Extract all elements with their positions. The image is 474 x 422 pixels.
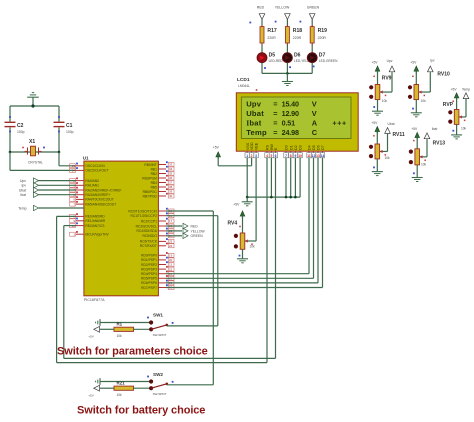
svg-text:OSC2/CLKOUT: OSC2/CLKOUT: [85, 169, 108, 173]
svg-text:RD5/PSP5: RD5/PSP5: [141, 277, 157, 281]
svg-text:19: 19: [169, 254, 173, 258]
svg-text:R17: R17: [267, 28, 277, 34]
svg-text:A: A: [312, 118, 318, 127]
svg-text:RC1/T1OSI/CCP2: RC1/T1OSI/CCP2: [131, 214, 158, 218]
svg-text:=: =: [273, 118, 277, 127]
svg-text:RV9: RV9: [382, 76, 392, 82]
svg-text:C1: C1: [66, 123, 73, 129]
svg-text:35: 35: [169, 172, 173, 176]
svg-text:Ibat: Ibat: [20, 193, 26, 197]
svg-text:Temp: Temp: [18, 206, 26, 210]
svg-text:Ubat: Ubat: [388, 122, 395, 126]
svg-text:RC4/SDI/SDA: RC4/SDI/SDA: [136, 229, 157, 233]
svg-text:RC3/SCK/SCL: RC3/SCK/SCL: [136, 224, 158, 228]
svg-text:D6: D6: [317, 145, 321, 150]
svg-text:RB7/PGD: RB7/PGD: [143, 194, 158, 198]
svg-text:C: C: [312, 128, 318, 137]
svg-text:RA0/AN0: RA0/AN0: [85, 179, 99, 183]
svg-text:220R: 220R: [318, 36, 327, 40]
svg-text:10k: 10k: [250, 245, 256, 249]
svg-text:SW2: SW2: [153, 372, 163, 377]
svg-text:36: 36: [169, 176, 173, 180]
svg-text:22: 22: [169, 267, 173, 271]
svg-text:LM044L: LM044L: [238, 84, 250, 88]
svg-text:RB2: RB2: [151, 172, 158, 176]
svg-text:U1: U1: [83, 155, 89, 160]
svg-text:100p: 100p: [66, 130, 74, 134]
svg-text:+5V: +5V: [233, 203, 240, 207]
svg-text:VDD: VDD: [250, 142, 254, 150]
svg-text:GREEN: GREEN: [307, 6, 320, 10]
svg-text:Temp: Temp: [462, 88, 470, 92]
svg-text:GREEN: GREEN: [191, 234, 204, 238]
svg-text:RVP: RVP: [443, 102, 454, 108]
svg-text:+5V: +5V: [88, 393, 93, 397]
svg-text:17: 17: [169, 219, 173, 223]
svg-text:SW-SPDT: SW-SPDT: [153, 392, 167, 396]
svg-text:25: 25: [169, 240, 173, 244]
svg-text:R21: R21: [117, 381, 126, 386]
svg-text:D7: D7: [321, 145, 325, 150]
svg-text:RV13: RV13: [433, 141, 446, 147]
svg-text:SW1: SW1: [153, 313, 163, 318]
svg-text:VSS: VSS: [246, 142, 250, 150]
svg-text:RB1: RB1: [151, 167, 158, 171]
svg-text:R19: R19: [318, 28, 328, 34]
svg-text:PIC16F877A: PIC16F877A: [84, 298, 105, 302]
svg-text:=: =: [273, 99, 277, 108]
svg-text:RED: RED: [257, 6, 265, 10]
svg-text:10k: 10k: [117, 393, 123, 397]
svg-text:R1: R1: [117, 322, 123, 327]
svg-text:14: 14: [72, 169, 76, 173]
svg-text:10k: 10k: [385, 156, 391, 160]
svg-text:220R: 220R: [267, 36, 276, 40]
svg-text:LCD1: LCD1: [237, 77, 250, 83]
svg-text:RA5/AN4/SS/C2OUT: RA5/AN4/SS/C2OUT: [85, 202, 116, 206]
svg-text:RD7/PSP7: RD7/PSP7: [141, 286, 157, 290]
svg-text:10k: 10k: [421, 163, 427, 167]
svg-text:D1: D1: [289, 145, 293, 150]
svg-text:20: 20: [169, 258, 173, 262]
svg-text:LED-RED: LED-RED: [269, 59, 284, 63]
svg-text:26: 26: [169, 244, 173, 248]
svg-text:Upv: Upv: [20, 179, 26, 183]
svg-text:RA1/AN1: RA1/AN1: [85, 184, 99, 188]
svg-text:10k: 10k: [421, 99, 427, 103]
svg-text:C2: C2: [17, 123, 24, 129]
svg-text:Upv: Upv: [246, 99, 262, 108]
svg-text:D3: D3: [299, 145, 303, 150]
svg-text:Ibat: Ibat: [432, 127, 438, 131]
svg-text:MCLR/Vpp/THV: MCLR/Vpp/THV: [85, 233, 109, 237]
svg-text:D7: D7: [319, 52, 326, 58]
svg-text:D2: D2: [294, 145, 298, 150]
svg-text:RB3/PGM: RB3/PGM: [142, 176, 157, 180]
svg-text:100p: 100p: [17, 130, 25, 134]
svg-text:RD4/PSP4: RD4/PSP4: [141, 272, 157, 276]
svg-text:Ipv: Ipv: [21, 184, 26, 188]
svg-text:+5V: +5V: [410, 61, 417, 65]
svg-text:RV11: RV11: [393, 132, 405, 138]
svg-text:D0: D0: [285, 145, 289, 150]
svg-text:D4: D4: [308, 145, 312, 150]
svg-text:40: 40: [169, 194, 173, 198]
svg-text:RD3/PSP3: RD3/PSP3: [141, 267, 157, 271]
svg-text:24.98: 24.98: [282, 128, 299, 137]
svg-text:12.90: 12.90: [282, 109, 299, 118]
svg-text:RC7/RX/DT: RC7/RX/DT: [140, 244, 157, 248]
svg-text:33: 33: [169, 163, 173, 167]
svg-text:10k: 10k: [461, 127, 467, 131]
svg-text:RC0/T1OSO/T1CKI: RC0/T1OSO/T1CKI: [128, 209, 157, 213]
svg-text:Upv: Upv: [387, 59, 393, 63]
svg-text:Switch for parameters choice: Switch for parameters choice: [57, 346, 208, 358]
svg-text:RV10: RV10: [437, 72, 450, 78]
svg-text:CRYSTAL: CRYSTAL: [28, 161, 43, 165]
svg-text:RD2/PSP2: RD2/PSP2: [141, 263, 157, 267]
svg-text:bat: bat: [249, 118, 261, 127]
svg-text:+5V: +5V: [213, 145, 220, 149]
svg-text:=: =: [273, 128, 277, 137]
svg-text:220R: 220R: [293, 36, 302, 40]
svg-text:+5V: +5V: [88, 335, 93, 339]
svg-text:RA4/T0CKI/C1OUT: RA4/T0CKI/C1OUT: [85, 198, 113, 202]
svg-text:RB4: RB4: [151, 181, 158, 185]
svg-text:+5V: +5V: [371, 121, 378, 125]
svg-text:RC6/TX/CK: RC6/TX/CK: [140, 240, 158, 244]
svg-text:Ubat: Ubat: [19, 188, 26, 192]
svg-text:RS: RS: [266, 144, 270, 150]
svg-text:+5V: +5V: [451, 87, 458, 91]
svg-text:R18: R18: [293, 28, 303, 34]
svg-text:D5: D5: [312, 145, 316, 150]
svg-text:RA3/AN3/VREF+: RA3/AN3/VREF+: [85, 193, 110, 197]
svg-text:10k: 10k: [382, 99, 388, 103]
svg-text:15.40: 15.40: [282, 99, 299, 108]
svg-text:RE1/AN6/WR: RE1/AN6/WR: [85, 219, 106, 223]
svg-text:D5: D5: [269, 52, 276, 58]
svg-text:=: =: [273, 109, 277, 118]
svg-text:RE0/AN5/RD: RE0/AN5/RD: [85, 215, 105, 219]
svg-text:LED-GREEN: LED-GREEN: [319, 59, 338, 63]
svg-text:RB0/INT: RB0/INT: [144, 163, 156, 167]
svg-text:21: 21: [169, 263, 173, 267]
svg-text:RA2/AN2/VREF-/CVREF: RA2/AN2/VREF-/CVREF: [85, 188, 121, 192]
svg-text:D6: D6: [294, 52, 301, 58]
svg-text:+++: +++: [332, 118, 346, 127]
svg-text:RC5/SDO: RC5/SDO: [142, 234, 157, 238]
svg-text:YELLOW: YELLOW: [191, 229, 206, 233]
svg-text:YELLOW: YELLOW: [275, 6, 290, 10]
svg-text:RD1/PSP1: RD1/PSP1: [141, 258, 157, 262]
svg-text:RD6/PSP6: RD6/PSP6: [141, 281, 157, 285]
svg-text:0.51: 0.51: [282, 118, 296, 127]
svg-text:Ubat: Ubat: [246, 109, 264, 118]
svg-text:X1: X1: [29, 139, 35, 145]
svg-text:OSC1/CLKIN: OSC1/CLKIN: [85, 164, 105, 168]
svg-text:39: 39: [169, 190, 173, 194]
svg-text:+5V: +5V: [372, 61, 379, 65]
svg-text:RD0/PSP0: RD0/PSP0: [141, 254, 157, 258]
svg-text:13: 13: [72, 164, 76, 168]
svg-text:RB6/PGC: RB6/PGC: [143, 190, 158, 194]
svg-text:RV4: RV4: [228, 220, 238, 226]
svg-text:RB5: RB5: [151, 185, 158, 189]
svg-text:34: 34: [169, 167, 173, 171]
svg-text:37: 37: [169, 181, 173, 185]
svg-text:VEE: VEE: [255, 142, 259, 150]
svg-text:V: V: [312, 99, 317, 108]
svg-text:Temp: Temp: [246, 128, 267, 137]
svg-text:10k: 10k: [117, 334, 123, 338]
svg-text:38: 38: [169, 185, 173, 189]
svg-text:Switch for battery choice: Switch for battery choice: [77, 405, 205, 417]
svg-text:SW-SPDT: SW-SPDT: [153, 333, 167, 337]
svg-text:RED: RED: [191, 224, 199, 228]
svg-text:RE2/AN7/CS: RE2/AN7/CS: [85, 224, 105, 228]
svg-text:RC2/CCP1: RC2/CCP1: [141, 219, 157, 223]
svg-text:V: V: [312, 109, 317, 118]
svg-text:+5V: +5V: [411, 127, 418, 131]
svg-text:Ipv: Ipv: [430, 59, 435, 63]
